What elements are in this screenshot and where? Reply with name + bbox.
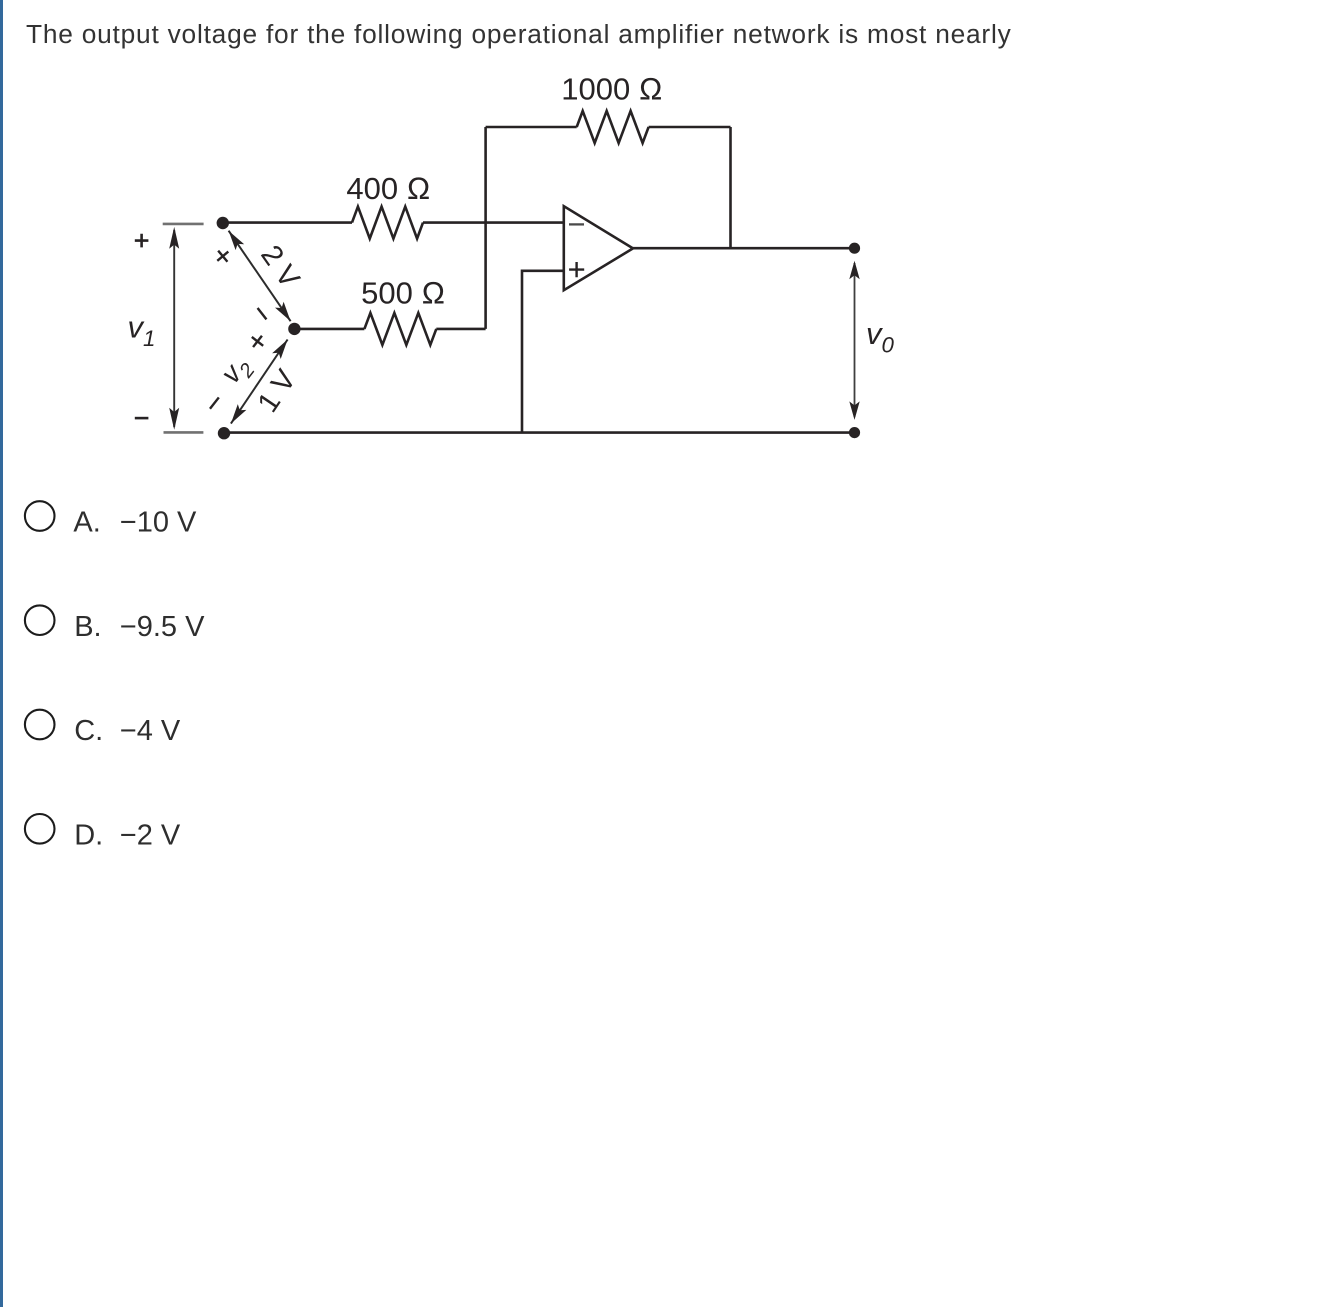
label: v1 minus sign [135, 417, 149, 420]
resistor R3 (1000 ohm) [577, 111, 649, 143]
wire: v1+ node to R1 [223, 221, 352, 224]
wire: R2 to feedback junction [436, 328, 485, 331]
wire: bottom rail [224, 431, 855, 434]
op-amp non-inverting pin marker [569, 262, 584, 277]
svg-text:−9.5 V: −9.5 V [120, 611, 205, 643]
option C radio button [25, 710, 55, 740]
label: V2 minus sign [258, 308, 267, 319]
svg-text:B.: B. [74, 611, 101, 643]
resistor R1 (400 ohm) [352, 207, 423, 239]
wire: feedback junction vertical riser [484, 127, 487, 329]
label: V3 plus sign [247, 331, 267, 351]
label: v1 plus sign [135, 234, 149, 248]
svg-text:The output voltage for the fol: The output voltage for the following ope… [26, 19, 1012, 49]
option B radio button [25, 605, 55, 635]
wire: op-amp output to v0 node [633, 247, 855, 250]
svg-text:400 Ω: 400 Ω [346, 171, 430, 206]
source V3 (1 V) arrow [231, 340, 288, 424]
tick: v1 minus reference [164, 431, 204, 434]
source V2 (2 V) arrow [229, 231, 291, 322]
wire: feedback top left segment [486, 126, 577, 129]
node: source summing junction [288, 323, 300, 335]
resistor R2 (500 ohm) [364, 313, 436, 345]
node: v1 minus terminal [218, 427, 230, 439]
wire: feedback top right segment [649, 126, 731, 129]
wire: R1 to op-amp inverting input [423, 221, 564, 224]
node: output return [849, 427, 860, 438]
svg-text:1000 Ω: 1000 Ω [561, 72, 662, 107]
v0 measurement arrow [849, 261, 859, 420]
svg-text:500 Ω: 500 Ω [361, 276, 445, 311]
svg-text:−10 V: −10 V [120, 507, 197, 539]
tick: v1 plus reference [163, 223, 204, 226]
svg-text:D.: D. [74, 820, 103, 852]
label: V3 minus sign [210, 397, 219, 408]
wire: feedback down to output [729, 127, 732, 248]
option D radio button [25, 814, 55, 844]
svg-text:−2 V: −2 V [120, 820, 181, 852]
label: V2 plus sign [213, 246, 233, 266]
v1 measurement arrow [169, 227, 179, 430]
op-amp U1 [564, 206, 633, 290]
wire: non-inverting input to bottom rail [522, 271, 564, 433]
wire: summing node to R2 [294, 328, 364, 331]
op-amp inverting pin marker [569, 223, 584, 225]
node: output [849, 243, 860, 254]
svg-text:C.: C. [74, 715, 103, 747]
svg-text:A.: A. [73, 507, 100, 539]
option A radio button [25, 501, 55, 531]
svg-text:−4 V: −4 V [120, 715, 181, 747]
node: v1 plus terminal [217, 217, 229, 229]
